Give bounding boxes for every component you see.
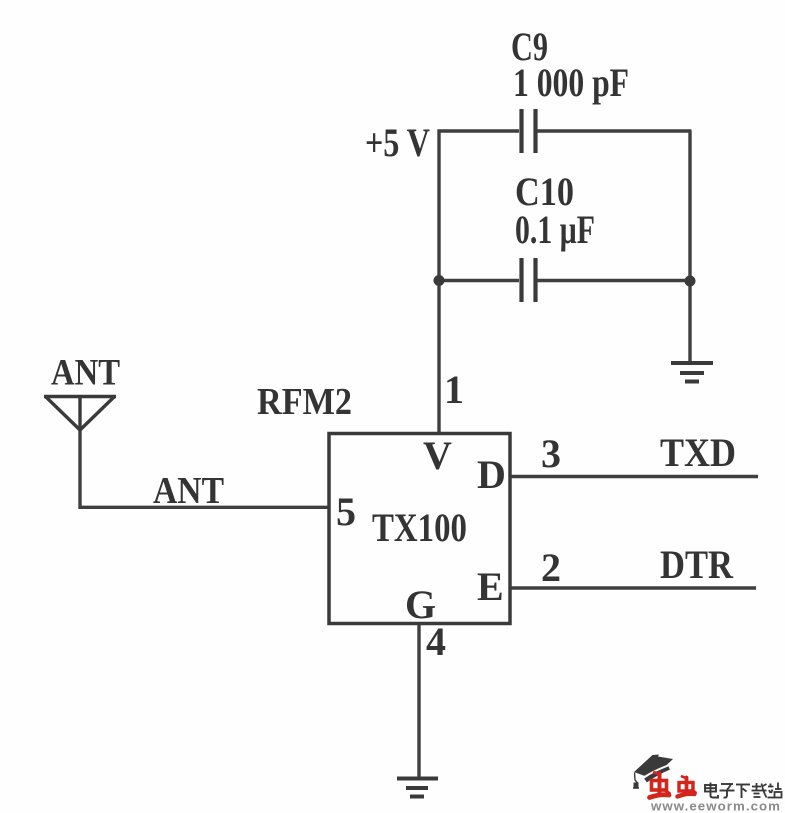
svg-text:RFM2: RFM2	[257, 381, 352, 423]
svg-text:3: 3	[541, 431, 561, 476]
watermark logo graduation cap	[633, 755, 673, 789]
capacitor C10	[522, 258, 536, 302]
wire pin 2 DTR	[510, 586, 756, 589]
watermark text zhan	[768, 783, 782, 798]
svg-text:TXD: TXD	[660, 430, 736, 475]
ground bottom	[397, 779, 438, 797]
wire pin 3 TXD	[510, 475, 758, 478]
capacitor C9	[522, 109, 536, 153]
watermark text dian	[705, 783, 718, 798]
watermark text xia	[736, 785, 750, 799]
svg-text:ANT: ANT	[51, 353, 120, 394]
wire antenna to pin 5	[80, 428, 329, 507]
wire top rail left segment	[438, 129, 520, 132]
node junction left	[434, 275, 445, 286]
watermark red character chong 2	[678, 777, 696, 797]
svg-text:0.1 µF: 0.1 µF	[515, 207, 595, 252]
ground top right	[671, 363, 713, 382]
svg-text:DTR: DTR	[660, 542, 734, 587]
wire mid rail right segment	[537, 279, 690, 282]
svg-text:1: 1	[444, 367, 464, 412]
svg-text:4: 4	[426, 619, 446, 664]
svg-text:TX100: TX100	[372, 505, 467, 550]
wire top rail right segment	[537, 129, 692, 132]
svg-text:www.eeworm.com: www.eeworm.com	[650, 800, 781, 813]
antenna ANT	[44, 397, 116, 431]
wire right vertical	[688, 131, 691, 362]
wire mid rail left segment	[439, 279, 519, 282]
watermark red character chong 1	[650, 773, 670, 798]
node junction right	[685, 276, 696, 287]
wire pin 4 to ground	[417, 623, 420, 778]
svg-text:+5 V: +5 V	[365, 120, 430, 165]
op-amp U1 : IC TX100 box	[329, 434, 510, 624]
svg-text:V: V	[423, 433, 452, 478]
watermark text zi	[720, 784, 735, 798]
svg-text:5: 5	[336, 489, 356, 534]
svg-text:1 000 pF: 1 000 pF	[513, 60, 629, 105]
svg-text:E: E	[477, 564, 504, 609]
wire left vertical +5V to pin 1	[437, 130, 440, 434]
svg-text:D: D	[477, 452, 506, 497]
svg-text:2: 2	[541, 545, 561, 590]
watermark text zai	[752, 783, 767, 798]
svg-text:ANT: ANT	[153, 470, 224, 512]
